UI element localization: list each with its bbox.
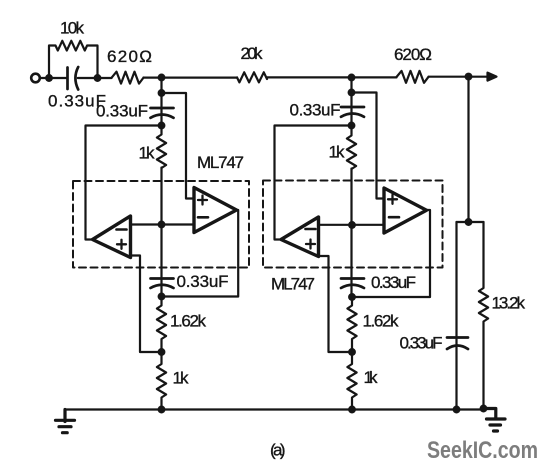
junction section2 amp inputs node [348,221,356,229]
A1R minus [198,216,208,219]
svg-text:ML747: ML747 [197,153,244,172]
capacitor C7 0.33uF output [447,338,468,350]
resistor 10k (parallel loop over C1) [49,41,98,78]
wire node A down stub [160,78,162,94]
op-amp A2 left (points left) [281,217,319,257]
svg-text:1k: 1k [329,143,346,162]
svg-text:0.33uF: 0.33uF [290,101,341,120]
wire A1L + input to lower node [131,256,162,353]
wire feedback A1L output loop [86,126,162,240]
wire central column section1 [160,168,162,297]
resistor 1k (section1 upper) [157,126,166,169]
A1L minus [117,228,127,231]
wire output node down [467,77,469,222]
svg-text:620Ω: 620Ω [394,45,432,64]
junction section1 branch [158,89,166,97]
wire C1 to 620 ohm resistor [78,77,112,79]
wire central column section2 [350,169,352,298]
junction output branch node [465,218,473,226]
resistor 1.62k section1 [157,297,166,353]
resistor 1k section1 lower [157,352,166,410]
A2L plus [306,240,315,249]
resistor 1k (section2 upper) [347,126,356,170]
junction section1 below C3 [158,293,166,301]
wire A1R output down [162,210,239,297]
junction C7 ground rail [453,406,461,414]
wire inverting inputs cross [131,223,195,225]
wire lead through C5 [350,93,352,126]
svg-text:1.62k: 1.62k [363,312,400,331]
junction section2 below 1.62k [348,348,356,356]
wire node B down stub [350,78,352,93]
ground symbol right [484,409,506,432]
wire lead through C2 [160,93,162,126]
junction section2 ground rail [348,406,356,414]
svg-text:0.33uF: 0.33uF [177,272,229,291]
wire A2R output down [352,210,430,297]
capacitor C5 0.33uF [341,107,364,117]
capacitor C2 0.33uF [151,108,174,118]
svg-text:SeekIC.com: SeekIC.com [427,437,538,464]
capacitor C1 0.33uF series input [68,67,79,90]
svg-text:1k: 1k [139,144,156,163]
resistor 13.2k [479,222,488,409]
svg-text:0.33uF: 0.33uF [400,334,443,353]
capacitor C3 0.33uF [151,279,174,289]
junction input node [45,74,53,82]
junction RC parallel right node [94,74,102,82]
junction node B top rail section2 [348,74,356,82]
svg-text:1k: 1k [173,369,190,388]
wire branch to A1R + input [162,93,195,199]
op-amp A1 right (points right) [194,188,237,233]
svg-text:10k: 10k [60,19,85,38]
op-amp A2 right (points right) [384,188,427,233]
dashed package box ML747 #2 [263,181,443,268]
ground symbol left [56,410,75,433]
wire 20k to 620 ohm right [267,76,397,78]
junction section1 amp inputs node [158,221,166,229]
dashed package box ML747 #1 [73,181,249,268]
resistor 20k [237,72,267,82]
bottom ground rail [65,408,484,410]
junction section2 below C6 [348,293,356,301]
junction output node top rail [465,73,473,81]
A2L minus [306,228,316,231]
junction section2 below C5 [348,122,356,130]
svg-text:ML747: ML747 [271,275,315,294]
output arrowhead [488,73,497,81]
wire feedback A2L output loop [275,126,352,240]
input terminal [31,74,40,83]
A1L plus [117,240,126,249]
capacitor C6 0.33uF [341,279,364,289]
junction section1 below 1.62k [158,348,166,356]
wire branch to A2R + input [352,93,385,199]
A1R plus [198,196,207,205]
junction 13.2k ground rail [480,405,488,413]
resistor 620 ohm (right) [397,71,429,83]
svg-text:20k: 20k [241,44,264,63]
svg-text:620Ω: 620Ω [107,47,152,66]
junction section1 ground rail [158,406,166,414]
resistor 620 ohm (left) [112,72,144,84]
resistor 1.62k section2 [347,297,356,352]
wire inverting inputs cross section2 [319,224,385,226]
junction section1 below C2 [158,122,166,130]
svg-text:(a): (a) [270,441,286,460]
junction node A top rail section1 [158,74,166,82]
resistor 1k section2 lower [347,352,356,410]
svg-text:0.33uF: 0.33uF [371,273,416,292]
wire A2L + input to lower node [319,256,353,352]
A2R minus [389,216,399,219]
svg-text:1k: 1k [364,368,379,387]
watermark SeekIC.com [427,437,538,464]
wire left branch through C7 to rail [455,222,457,410]
wire to 20k [144,76,238,78]
op-amp A1 left (inverting, points left) [93,216,131,258]
A2R plus [388,195,397,204]
svg-text:0.33uF: 0.33uF [96,102,148,121]
svg-text:13.2k: 13.2k [492,294,526,313]
wire input to C1 [40,77,67,79]
wire branch cross [457,221,484,223]
op-amp sign marks [117,195,400,249]
svg-text:1.62k: 1.62k [170,312,207,331]
junction section2 branch [348,89,356,97]
wire 620 to output arrow [429,76,489,78]
